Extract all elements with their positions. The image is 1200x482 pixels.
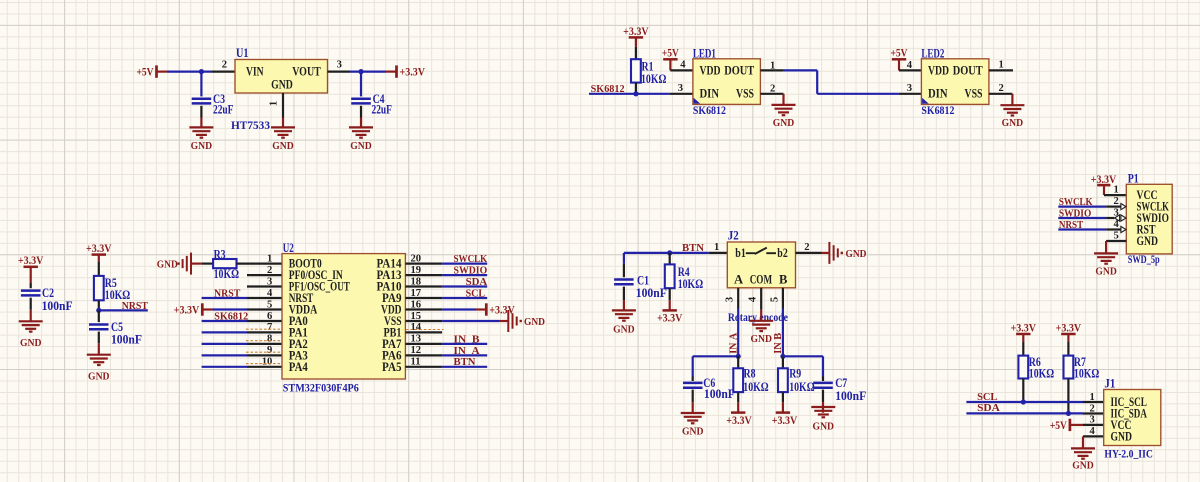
ground (C1) <box>612 310 636 335</box>
power port +3.3V (R8) <box>726 413 752 427</box>
svg-text:BTN: BTN <box>682 243 704 254</box>
svg-text:10: 10 <box>262 357 273 368</box>
wire PA1 net <box>202 331 247 333</box>
svg-text:Rotary encode: Rotary encode <box>728 312 788 324</box>
pin name VOUT <box>292 63 321 78</box>
pin 2 of J1 <box>1083 403 1104 414</box>
wire SDA net (J1) <box>966 412 1083 414</box>
designator U1 <box>236 46 249 60</box>
pin name PA2 (U2) <box>289 337 308 351</box>
pin name VDD (LED2) <box>928 62 949 77</box>
ground (VSS) <box>508 310 545 332</box>
svg-text:b2: b2 <box>777 246 788 260</box>
pin name b2 (J2) <box>777 246 788 260</box>
designator U2 <box>283 241 294 255</box>
capacitor C6 <box>683 377 703 403</box>
resistor R3 <box>213 259 236 268</box>
net label SCL (J1) <box>977 392 997 403</box>
label R8 <box>744 367 756 381</box>
pin name IIC_SDA (J1) <box>1111 407 1147 421</box>
pin name RST (P1) <box>1137 223 1156 237</box>
pin 7 of U2 <box>247 322 282 333</box>
wire IN_B net <box>442 343 487 345</box>
capacitor C1 <box>614 264 634 300</box>
pin name PA7 (U2) <box>382 337 402 351</box>
pin 3 of J2 <box>725 288 739 309</box>
value 100nF (C5) <box>111 333 142 347</box>
junction B node <box>780 354 785 359</box>
svg-text:GND: GND <box>682 426 704 437</box>
svg-text:COM: COM <box>750 273 772 287</box>
ground (COM) <box>749 321 773 345</box>
pin 18 of U2 <box>405 276 442 287</box>
wire U1 VOUT to +3.3V <box>350 70 397 72</box>
svg-text:R9: R9 <box>789 367 801 381</box>
no-ERC dash (pin 10) <box>246 363 285 365</box>
svg-text:GND: GND <box>524 317 545 328</box>
net label SCL <box>466 288 485 299</box>
junction NRST/C5 <box>96 308 101 313</box>
junction at C4 <box>358 69 363 74</box>
capacitor C7 <box>813 377 833 403</box>
power port +3.3V (R7) <box>1056 320 1082 334</box>
value label SK6812 (LED2) <box>921 105 954 117</box>
svg-text:B: B <box>779 273 788 287</box>
svg-text:GND: GND <box>191 141 213 152</box>
svg-text:1: 1 <box>770 61 775 72</box>
svg-text:U1: U1 <box>236 46 249 60</box>
ground (J1) <box>1071 448 1095 471</box>
value 10K&#937; (R5) <box>105 288 130 302</box>
pin 1 of U1 (GND pin) <box>269 93 284 118</box>
junction BTN/R4 <box>667 250 672 255</box>
value 10K&#937; (R7) <box>1074 367 1099 381</box>
ground (C2) <box>19 321 43 349</box>
svg-text:4: 4 <box>748 296 759 302</box>
stem +3.3V to R1 <box>635 37 637 59</box>
stem +3.3V to R6 <box>1022 334 1024 356</box>
switch contact symbol <box>746 248 776 254</box>
label R9 <box>789 367 801 381</box>
designator J2 <box>728 229 739 243</box>
svg-text:3: 3 <box>337 60 342 71</box>
svg-text:10KΩ: 10KΩ <box>641 72 666 86</box>
wire +5V to U1 VIN <box>157 70 213 72</box>
pin 8 of U2 <box>247 334 282 345</box>
designator J1 <box>1104 377 1115 391</box>
svg-text:22uF: 22uF <box>372 103 393 117</box>
pin name PB1 (U2) <box>384 325 402 339</box>
svg-text:C2: C2 <box>42 286 54 300</box>
net label IN B <box>454 334 480 345</box>
capacitor C3 <box>192 72 212 118</box>
svg-text:12: 12 <box>411 345 422 356</box>
svg-text:10KΩ: 10KΩ <box>214 267 239 281</box>
svg-text:PA4: PA4 <box>289 360 309 374</box>
value 100nF (C7) <box>835 389 866 403</box>
pin name PA10 (U2) <box>377 280 402 294</box>
designator P1 <box>1128 172 1139 186</box>
svg-text:HT7533: HT7533 <box>231 120 270 132</box>
resistor R8 <box>733 356 743 392</box>
pin of R1 to wire <box>635 83 637 94</box>
ground (J2 pin2) <box>822 242 867 264</box>
power port +5V (LED1) <box>662 46 679 60</box>
svg-text:2: 2 <box>222 60 227 71</box>
capacitor C4 <box>351 72 371 118</box>
label R7 <box>1074 355 1086 369</box>
svg-text:3: 3 <box>678 83 683 94</box>
pin name VDD (U2) <box>381 303 402 317</box>
net label NRST (U2) <box>214 289 240 300</box>
svg-text:DIN: DIN <box>700 86 720 101</box>
label R6 <box>1029 355 1041 369</box>
svg-text:DOUT: DOUT <box>724 62 754 77</box>
wire PA4 net <box>202 366 247 368</box>
wire +3.3V to VDDA <box>202 308 247 310</box>
pin 13 of U2 <box>405 334 442 345</box>
pin 1 of U2 <box>237 253 283 264</box>
power port +3.3V (R9) <box>772 413 798 427</box>
wire PA2 net <box>202 343 247 345</box>
ground stem C2 <box>30 310 32 322</box>
pin name b1 (J2) <box>735 246 746 260</box>
pin 20 of U2 <box>405 253 442 264</box>
value 10K&#937; (R3) <box>214 267 239 281</box>
value 10K&#937; (R8) <box>743 380 768 394</box>
pin 15 of U2 <box>405 311 442 322</box>
LED U-LED1 body <box>693 59 761 105</box>
value 100nF (C2) <box>42 299 73 313</box>
pin 2 of J2 <box>796 242 822 253</box>
ground (LED1) <box>772 105 796 129</box>
power port +3.3V (R5) <box>86 241 112 255</box>
pin 2 of LED2 <box>989 83 1013 94</box>
value 100nF (C6) <box>704 387 735 401</box>
wire SWCLK to P1 <box>1058 206 1106 208</box>
wire SWDIO to P1 <box>1058 217 1106 219</box>
svg-text:2: 2 <box>1114 196 1119 207</box>
svg-text:17: 17 <box>411 288 422 299</box>
wire SCL net (J1) <box>966 401 1083 403</box>
svg-text:GND: GND <box>1095 267 1117 278</box>
ground (C3) <box>189 127 213 152</box>
net label BTN <box>454 357 476 368</box>
label R5 <box>105 276 117 290</box>
wire A to junction <box>737 309 739 357</box>
net label SDA (J1) <box>977 403 1000 414</box>
label C6 <box>703 376 715 390</box>
ground stem C1 <box>623 300 625 310</box>
pin name DIN (LED1) <box>700 86 720 101</box>
svg-text:+3.3V: +3.3V <box>400 65 426 79</box>
value label SWD_5p <box>1128 254 1160 266</box>
pin 4 of P1 <box>1106 219 1121 230</box>
pin name GND <box>271 77 293 92</box>
ground stem C4 <box>360 118 362 128</box>
ground stem U1 <box>282 118 284 128</box>
svg-text:GND: GND <box>613 325 635 336</box>
capacitor C2 <box>21 267 41 310</box>
pin name DOUT (LED2) <box>953 62 983 77</box>
pin name BOOT0 (U2) <box>289 257 322 271</box>
stem +3.3V to R7 <box>1067 334 1069 356</box>
svg-text:GND: GND <box>846 249 867 260</box>
connector J1 body <box>1104 390 1161 446</box>
svg-text:GND: GND <box>272 141 294 152</box>
svg-text:6: 6 <box>267 311 272 322</box>
svg-text:SWCLK: SWCLK <box>454 254 488 265</box>
ground stem J1 <box>1082 436 1084 448</box>
pin 5 of U2 <box>247 299 282 310</box>
input arrow pin 4 (P1) <box>1121 226 1126 232</box>
stem +3.3V to R5 <box>98 255 100 276</box>
net label BTN (J2) <box>682 243 704 254</box>
svg-text:15: 15 <box>411 311 422 322</box>
power port +3.3V (C2) <box>18 253 44 267</box>
pin name VCC (P1) <box>1137 188 1158 202</box>
svg-text:1: 1 <box>1114 185 1119 196</box>
svg-text:GND: GND <box>157 260 178 271</box>
wire PA3 net <box>202 354 247 356</box>
svg-text:SWDIO: SWDIO <box>454 266 488 277</box>
pin 1 of J1 <box>1083 392 1104 403</box>
pin 12 of U2 <box>405 345 442 356</box>
input marker triangle (LED1) <box>694 98 701 104</box>
label R3 <box>214 248 226 262</box>
stem +5V to LED1 pin 4 <box>669 59 671 70</box>
svg-text:3: 3 <box>725 297 736 302</box>
wire IN_A net <box>442 354 487 356</box>
svg-text:+3.3V: +3.3V <box>657 311 683 325</box>
svg-text:2: 2 <box>1090 403 1095 414</box>
svg-text:18: 18 <box>411 276 422 287</box>
svg-text:4: 4 <box>1090 426 1096 437</box>
net label NRST <box>122 301 148 312</box>
svg-text:NRST: NRST <box>1059 220 1083 231</box>
svg-text:100nF: 100nF <box>704 387 735 401</box>
svg-text:1: 1 <box>714 242 719 253</box>
header P1 body <box>1126 184 1172 254</box>
ground (P1) <box>1094 253 1118 277</box>
pin name PA9 (U2) <box>382 291 402 305</box>
pin R6 to SCL <box>1022 379 1024 403</box>
wire +5V to J1 VCC <box>1070 424 1083 426</box>
resistor R9 <box>778 356 788 392</box>
svg-text:20: 20 <box>411 253 422 264</box>
svg-text:10KΩ: 10KΩ <box>743 380 768 394</box>
value 10K&#937; (R1) <box>641 72 666 86</box>
wire A to C6 <box>693 356 739 376</box>
pin name DOUT (LED1) <box>724 62 754 77</box>
svg-text:+3.3V: +3.3V <box>772 413 798 427</box>
svg-text:STM32F030F4P6: STM32F030F4P6 <box>283 383 359 395</box>
ground (U1) <box>271 127 295 152</box>
input arrow pin 2 (P1) <box>1121 204 1126 210</box>
pin name PF0/OSC_IN (U2) <box>289 268 343 282</box>
pin 19 of U2 <box>405 265 442 276</box>
pin 17 of U2 <box>405 288 442 299</box>
pin name SWDIO (P1) <box>1137 211 1170 225</box>
value label HY-2.0_IIC <box>1104 449 1153 461</box>
svg-text:SWDIO: SWDIO <box>1059 208 1091 219</box>
resistor R5 <box>94 276 104 300</box>
svg-text:VIN: VIN <box>246 63 264 78</box>
label C4 <box>373 92 386 106</box>
label C3 <box>213 92 225 106</box>
switch J2 body <box>727 242 795 288</box>
svg-text:C7: C7 <box>835 376 847 390</box>
wire GND to R3 <box>191 263 213 265</box>
svg-text:1: 1 <box>269 101 280 106</box>
svg-text:NRST: NRST <box>122 301 148 312</box>
ground stem LED1 <box>782 94 784 105</box>
svg-text:P1: P1 <box>1128 172 1139 186</box>
pin name VCC (J1) <box>1111 418 1132 432</box>
svg-text:4: 4 <box>907 60 913 71</box>
svg-text:10KΩ: 10KΩ <box>1074 367 1099 381</box>
svg-text:SWCLK: SWCLK <box>1059 197 1093 208</box>
pin 10 of U2 <box>247 357 282 368</box>
ground stem COM <box>760 310 762 321</box>
pin R7 to SDA <box>1067 379 1069 414</box>
pin 3 of P1 <box>1106 208 1119 219</box>
svg-text:SCL: SCL <box>466 288 485 299</box>
net label SK6812 (U2) <box>214 312 248 323</box>
ground (C5) <box>87 355 111 383</box>
svg-text:+3.3V: +3.3V <box>18 253 44 267</box>
pin name GND (J1) <box>1111 429 1133 443</box>
pin 3 of LED1 <box>670 83 693 94</box>
ground (C4) <box>349 127 373 152</box>
value 10K&#937; (R6) <box>1029 367 1054 381</box>
svg-text:100nF: 100nF <box>636 286 667 300</box>
net label SWDIO (P1) <box>1059 208 1091 219</box>
pin name B (J2) <box>779 273 788 287</box>
svg-text:HY-2.0_IIC: HY-2.0_IIC <box>1104 449 1153 461</box>
wire NRST to U2 <box>202 297 247 299</box>
junction R7/SDA <box>1066 411 1071 416</box>
stem +5V to LED2 pin 4 <box>898 59 900 70</box>
pin 1 of LED1 <box>760 61 783 72</box>
svg-text:2: 2 <box>770 84 775 95</box>
svg-text:+3.3V: +3.3V <box>623 24 649 38</box>
pin 5 of P1 <box>1106 231 1126 242</box>
pin 2 of P1 <box>1106 196 1121 207</box>
pin name VSS (U2) <box>384 314 402 328</box>
svg-text:b1: b1 <box>735 246 746 260</box>
svg-text:SWD_5p: SWD_5p <box>1128 254 1160 266</box>
wire NRST to P1 <box>1058 228 1106 230</box>
pin 11 of U2 <box>405 357 442 368</box>
pin name VSS (LED2) <box>965 86 983 101</box>
ground stem C7 <box>822 402 824 413</box>
wire NRST net <box>99 309 148 311</box>
svg-text:+3.3V: +3.3V <box>86 241 112 255</box>
resistor R7 <box>1064 356 1074 379</box>
ground (R3 side) <box>157 253 191 275</box>
svg-text:22uF: 22uF <box>213 103 234 117</box>
pin 1 of P1 <box>1104 185 1126 196</box>
I/O arrows pin 3 (P1) <box>1115 215 1127 221</box>
net label SWDIO <box>454 266 488 277</box>
ground stem LED2 <box>1011 94 1013 105</box>
svg-text:3: 3 <box>267 276 272 287</box>
pin name VIN <box>246 63 264 78</box>
svg-text:SK6812: SK6812 <box>921 105 954 117</box>
svg-text:IN B: IN B <box>454 334 480 345</box>
svg-text:3: 3 <box>907 83 912 94</box>
label C5 <box>111 320 123 334</box>
svg-text:R8: R8 <box>744 367 756 381</box>
pin name A (J2) <box>734 273 743 287</box>
svg-text:16: 16 <box>411 299 422 310</box>
pin 4 of LED1 <box>670 60 693 71</box>
pin R5 to node <box>98 300 100 310</box>
wire VSS to GND <box>442 320 508 322</box>
net label IN B (rotated) <box>773 333 784 354</box>
svg-text:GND: GND <box>773 118 795 129</box>
ground (C6) <box>681 413 705 437</box>
pin name PA0 (U2) <box>289 314 308 328</box>
power port +3.3V (U1 output) <box>397 65 426 79</box>
wire LED1 DOUT to LED2 DIN <box>783 70 899 93</box>
svg-text:DIN: DIN <box>928 86 948 101</box>
svg-text:9: 9 <box>267 345 272 356</box>
input marker triangle (LED2) <box>922 98 929 104</box>
svg-text:100nF: 100nF <box>111 333 142 347</box>
power port +3.3V (R6) <box>1011 320 1037 334</box>
svg-text:4: 4 <box>1114 219 1120 230</box>
power port +3.3V (R4) <box>657 310 683 324</box>
svg-text:11: 11 <box>411 357 421 368</box>
junction R1/DIN <box>633 91 638 96</box>
pin 6 of U2 <box>247 311 282 322</box>
svg-text:J2: J2 <box>728 229 739 243</box>
junction A node <box>736 354 741 359</box>
pin 4 of U2 <box>247 288 282 299</box>
svg-text:VSS: VSS <box>736 86 754 101</box>
svg-text:100nF: 100nF <box>835 389 866 403</box>
svg-text:10KΩ: 10KΩ <box>678 277 703 291</box>
wire BTN net <box>442 366 487 368</box>
pin 16 of U2 <box>405 299 442 310</box>
ground (C7) <box>811 407 835 433</box>
svg-text:SCL: SCL <box>977 392 997 403</box>
pin name PA4 (U2) <box>289 360 309 374</box>
stem R8 to +3.3V <box>737 392 739 412</box>
label R1 <box>642 60 654 74</box>
svg-text:+3.3V: +3.3V <box>1056 320 1082 334</box>
pin name PA1 (U2) <box>289 325 308 339</box>
svg-text:GND: GND <box>813 422 835 433</box>
svg-text:3: 3 <box>1114 208 1119 219</box>
pin 4 of J1 <box>1083 426 1104 437</box>
value 10K&#937; (R9) <box>789 380 814 394</box>
ground stem C5 <box>98 343 100 355</box>
pin name DIN (LED2) <box>928 86 948 101</box>
svg-text:13: 13 <box>411 334 422 345</box>
value label SK6812 (LED1) <box>693 105 726 117</box>
junction R6/SCL <box>1021 399 1026 404</box>
svg-text:14: 14 <box>411 322 422 333</box>
pin 3 of J1 <box>1083 415 1104 426</box>
pin 3 of U1 <box>328 60 351 72</box>
svg-text:GND: GND <box>271 77 293 92</box>
svg-text:10KΩ: 10KΩ <box>789 380 814 394</box>
capacitor C5 <box>89 310 109 343</box>
pin name COM (J2) <box>750 273 772 287</box>
